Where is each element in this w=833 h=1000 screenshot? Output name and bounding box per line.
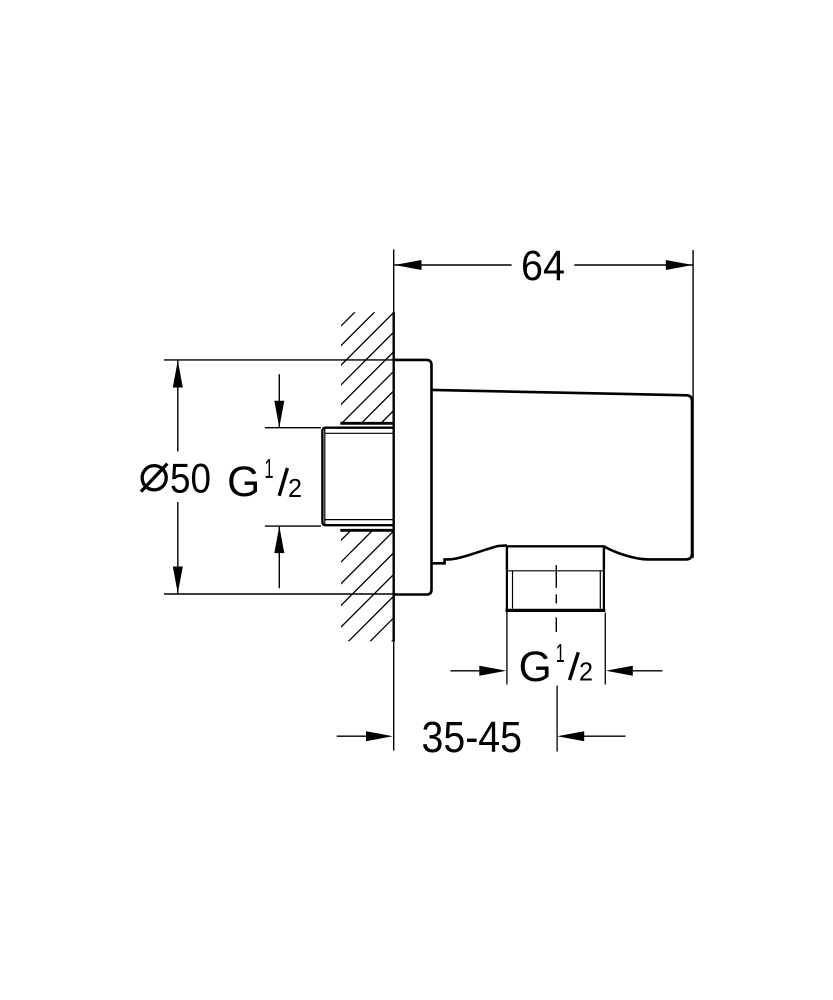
svg-text:1: 1 [265, 453, 274, 484]
wall face extension line lower [393, 642, 395, 751]
outlet collar [507, 546, 604, 571]
outlet G1/2 extension line right [604, 613, 606, 685]
inlet G1/2 extension line bottom [265, 525, 321, 527]
outlet collar/thread separator [507, 570, 604, 572]
dimension D50 top arrow [173, 361, 183, 388]
outlet G1/2 left arrow [479, 666, 506, 676]
inlet G1/2 extension line top [265, 427, 321, 429]
svg-text:64: 64 [521, 242, 565, 290]
svg-text:1: 1 [556, 638, 565, 668]
wall hatch upper block [339, 271, 396, 465]
dimension D50 line upper segment [177, 361, 179, 452]
inlet G1/2 lower arrow line [278, 526, 280, 588]
outlet G1/2 extension line left [506, 612, 508, 685]
svg-text:50: 50 [170, 454, 211, 501]
wall bore edge upper [340, 422, 393, 425]
dimension 64 line left segment [395, 264, 512, 266]
outlet centerline dash 1 [555, 565, 557, 588]
svg-text:35-45: 35-45 [422, 713, 523, 762]
outlet centerline dash 3 [555, 617, 557, 632]
escutcheon flange [394, 360, 432, 595]
svg-text:2: 2 [579, 659, 593, 687]
dimension D50 extension line bottom [164, 593, 394, 595]
body outline bottom-left [432, 545, 507, 563]
svg-text:G: G [227, 459, 260, 506]
dimension 64 line right segment [574, 264, 693, 266]
outlet G1/2 right arrow [606, 666, 633, 676]
dimension D50 symbol circle [142, 466, 166, 490]
inlet nipple chamfer line [324, 429, 326, 525]
dimension 35-45 left arrow [366, 731, 393, 741]
dimension 35-45 right arrow [557, 731, 584, 741]
dimension 64 right extension line [692, 250, 694, 558]
inlet G1/2 lower arrow [274, 526, 284, 553]
outlet centerline dash 2 [555, 594, 557, 603]
body outline top/right [432, 390, 693, 560]
outlet G1/2 dim line left [450, 670, 479, 672]
dimension 64 right arrow [666, 260, 693, 270]
outlet G1/2 slash [570, 652, 579, 680]
svg-text:2: 2 [288, 475, 302, 503]
dimension 35-45 line right [583, 735, 625, 737]
outlet thread minor right [599, 571, 601, 609]
outlet G1/2 dim line right [633, 670, 663, 672]
dimension D50 symbol slash [141, 464, 167, 492]
dimension D50 line lower segment [177, 502, 179, 594]
wall face extension line upper [393, 250, 395, 312]
inlet G1/2 slash [279, 468, 287, 496]
dimension 35-45 line left [337, 735, 367, 737]
outlet thread minor left [512, 571, 514, 609]
wall hatch lower block [339, 485, 396, 694]
inlet G1/2 upper arrow line [278, 374, 280, 428]
inlet nipple outer [322, 428, 393, 526]
inlet G1/2 upper arrow [274, 401, 284, 428]
svg-text:G: G [519, 644, 552, 691]
dimension D50 extension line top [164, 359, 394, 361]
dimension D50 bottom arrow [173, 567, 183, 594]
outlet thread outer left [506, 571, 508, 611]
wall face line [393, 312, 395, 642]
outlet thread end edge [506, 609, 606, 612]
outlet thread outer right [603, 571, 605, 611]
dimension 64 left arrow [395, 260, 422, 270]
wall bore edge lower [340, 529, 393, 532]
inlet nipple thread minor bottom [325, 519, 394, 521]
dimension 35-45 center extension line [556, 686, 558, 752]
inlet nipple thread minor top [325, 432, 394, 434]
